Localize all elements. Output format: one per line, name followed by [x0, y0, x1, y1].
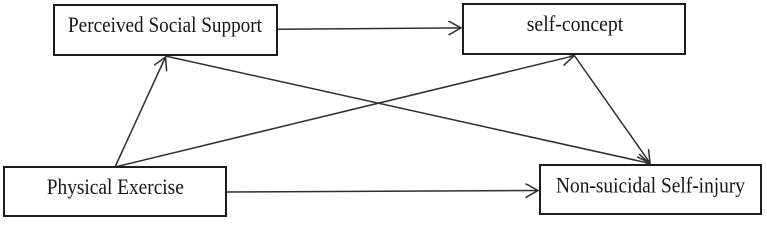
svg-text:Physical Exercise: Physical Exercise — [47, 174, 184, 199]
svg-text:self-concept: self-concept — [527, 11, 624, 36]
svg-text:Non-suicidal Self-injury: Non-suicidal Self-injury — [556, 173, 746, 198]
svg-text:Perceived Social Support: Perceived Social Support — [68, 12, 263, 37]
